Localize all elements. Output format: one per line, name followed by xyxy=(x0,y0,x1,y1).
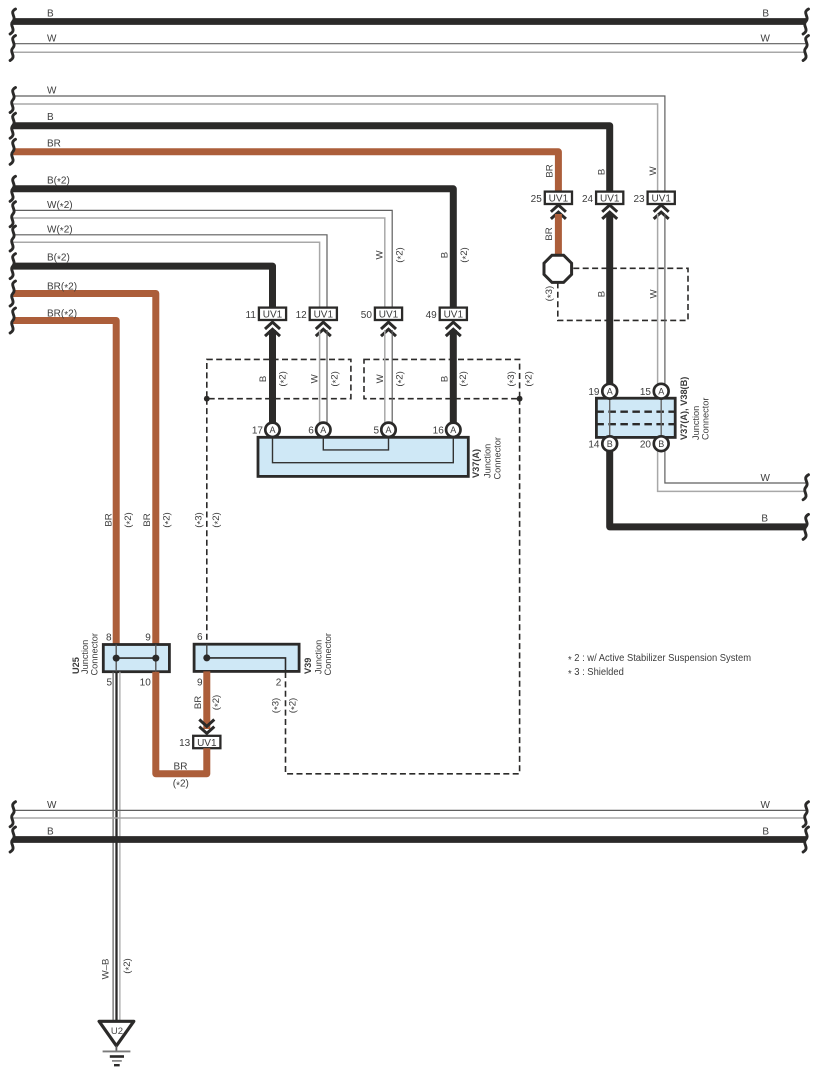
connector 49 UV1 xyxy=(440,308,467,320)
svg-text:11: 11 xyxy=(246,310,257,321)
svg-text:B(*2): B(*2) xyxy=(47,253,70,266)
svg-text:UV1: UV1 xyxy=(444,310,464,321)
connector 25 UV1 xyxy=(545,192,572,204)
ground stem xyxy=(115,1046,117,1052)
svg-text:B: B xyxy=(607,439,613,449)
svg-text:5: 5 xyxy=(107,677,113,688)
svg-text:(*2): (*2) xyxy=(162,512,175,527)
wire B (top battery line) xyxy=(13,18,806,25)
svg-text:(*2): (*2) xyxy=(288,698,301,713)
svg-text:24: 24 xyxy=(582,194,594,205)
svg-text:(*3): (*3) xyxy=(194,512,207,527)
svg-text:16: 16 xyxy=(433,426,445,437)
V37(A),V38(B) internal dashed bus lower xyxy=(596,423,675,425)
svg-text:* 3 : Shielded: * 3 : Shielded xyxy=(568,667,624,680)
ground bar 2 xyxy=(110,1055,124,1058)
svg-text:B: B xyxy=(47,112,54,123)
wire BR to 25 UV1 xyxy=(13,152,558,192)
pin 20 (B) of V37(A),V38(B) xyxy=(654,436,669,451)
wire through U25 pin 9-10 xyxy=(155,645,157,672)
svg-text:W: W xyxy=(761,800,771,811)
svg-text:(*2): (*2) xyxy=(211,512,224,527)
V37(A),V38(B) internal dashed bus upper xyxy=(596,411,675,413)
svg-text:6: 6 xyxy=(197,632,203,643)
svg-text:BR(*2): BR(*2) xyxy=(47,308,77,321)
wire through V37(A),V38(B) at pin 15-20 xyxy=(660,398,662,437)
svg-text:(*2): (*2) xyxy=(523,371,536,386)
svg-text:V37(A): V37(A) xyxy=(471,449,481,478)
svg-text:B: B xyxy=(597,291,608,297)
pin 17 (A) of V37(A) xyxy=(265,423,279,437)
svg-text:14: 14 xyxy=(588,440,600,451)
connector 50 UV1 xyxy=(375,308,402,320)
connector 23 UV1 xyxy=(648,192,675,204)
wire B from 24 UV1 to pin 19 xyxy=(606,214,613,384)
wire B from 11 UV1 to pin 17 xyxy=(269,330,276,424)
svg-text:6: 6 xyxy=(308,426,314,437)
svg-text:B: B xyxy=(762,827,769,838)
V39 internal bus xyxy=(207,658,286,672)
chevron under 23 UV1 xyxy=(654,205,669,212)
svg-text:9: 9 xyxy=(197,677,203,688)
U25 junction dot pin 8 xyxy=(113,655,120,662)
V37(A) internal bus pins 17-16 xyxy=(273,437,454,462)
svg-text:Junction: Junction xyxy=(313,640,323,674)
wire W from 50 UV1 to pin 5 xyxy=(391,330,393,429)
svg-text:Junction: Junction xyxy=(482,444,492,478)
svg-text:A: A xyxy=(320,425,326,435)
wire through U25 pin 8-5 xyxy=(115,645,117,672)
U25 junction dot pin 9 xyxy=(152,655,159,662)
svg-text:(*2): (*2) xyxy=(211,695,224,710)
svg-text:BR: BR xyxy=(104,513,115,526)
svg-text:UV1: UV1 xyxy=(600,194,620,205)
svg-text:(*3): (*3) xyxy=(271,698,284,713)
chevron under 11 UV1 xyxy=(265,322,280,329)
pin 19 (A) of V37(A),V38(B) xyxy=(602,384,617,399)
wire W to 23 UV1 xyxy=(13,96,665,192)
V37(A) internal bus pins 6-5 xyxy=(323,437,388,450)
svg-text:Connector: Connector xyxy=(492,437,502,479)
shield dashed wire from left dot to V39 pin 6 xyxy=(206,399,208,645)
svg-text:50: 50 xyxy=(361,310,373,321)
svg-text:UV1: UV1 xyxy=(263,310,283,321)
svg-text:25: 25 xyxy=(531,194,543,205)
svg-text:B(*2): B(*2) xyxy=(47,175,70,188)
junction connector V37(A),V38(B) body xyxy=(596,398,675,437)
connector 12 UV1 xyxy=(310,308,337,320)
shield junction dot (right) xyxy=(517,396,523,402)
ground U2 triangle xyxy=(99,1021,134,1046)
wire B (bottom) xyxy=(13,836,806,843)
wire W from 12 UV1 to pin 6 xyxy=(326,330,328,429)
svg-text:Connector: Connector xyxy=(323,633,333,675)
svg-text:Connector: Connector xyxy=(701,398,711,440)
svg-text:49: 49 xyxy=(426,310,438,321)
svg-text:BR: BR xyxy=(193,696,204,709)
connector 13 UV1 xyxy=(193,736,220,748)
svg-text:B: B xyxy=(762,9,769,20)
svg-text:BR: BR xyxy=(545,164,556,177)
svg-text:A: A xyxy=(658,387,664,397)
svg-text:(*2): (*2) xyxy=(122,958,135,973)
svg-text:W: W xyxy=(47,800,57,811)
svg-text:A: A xyxy=(607,387,613,397)
svg-text:(*2): (*2) xyxy=(459,247,472,262)
svg-text:23: 23 xyxy=(633,194,645,205)
junction connector V39 body xyxy=(194,644,299,671)
chevron under 12 UV1 xyxy=(316,322,331,329)
svg-text:UV1: UV1 xyxy=(651,194,671,205)
svg-text:B: B xyxy=(47,9,54,20)
svg-text:W(*2): W(*2) xyxy=(47,200,73,213)
junction connector U25 body xyxy=(103,645,169,672)
svg-text:(*2): (*2) xyxy=(123,512,136,527)
svg-text:B: B xyxy=(658,439,664,449)
svg-text:B: B xyxy=(761,513,768,524)
wire W-B from U25 pin 5 to ground U2 xyxy=(112,672,114,1021)
svg-text:B: B xyxy=(440,376,451,382)
svg-text:(*3): (*3) xyxy=(506,371,519,386)
svg-text:A: A xyxy=(269,425,275,435)
V39 junction dot xyxy=(203,654,210,661)
pin 16 (A) of V37(A) xyxy=(446,423,460,437)
ground bar 1 xyxy=(103,1050,131,1052)
wire W (bottom) xyxy=(13,809,806,811)
svg-text:BR: BR xyxy=(47,138,61,149)
chevron under 25 UV1 xyxy=(551,205,566,212)
svg-text:Connector: Connector xyxy=(89,633,99,675)
svg-text:(*2): (*2) xyxy=(329,371,342,386)
wire W(*2) to 50 UV1 xyxy=(13,210,392,308)
svg-text:W: W xyxy=(648,166,659,176)
junction connector V37(A) body xyxy=(258,437,468,476)
svg-text:15: 15 xyxy=(640,387,652,398)
wire BR from V39 pin 9 to 13 UV1 xyxy=(203,671,210,729)
wire B to 24 UV1 xyxy=(13,126,610,192)
svg-text:8: 8 xyxy=(106,632,112,643)
svg-text:W: W xyxy=(374,250,385,260)
svg-text:(*2): (*2) xyxy=(173,779,189,792)
svg-text:UV1: UV1 xyxy=(314,310,334,321)
svg-text:B: B xyxy=(47,827,54,838)
wire W(*2) to 12 UV1 xyxy=(13,235,327,308)
svg-text:(*2): (*2) xyxy=(394,247,407,262)
svg-text:20: 20 xyxy=(640,440,652,451)
shield dashed wire from right dot to V39 pin 2 xyxy=(286,399,520,774)
svg-text:(*2): (*2) xyxy=(395,371,408,386)
svg-text:(*3): (*3) xyxy=(544,286,557,301)
pin 14 (B) of V37(A),V38(B) xyxy=(602,436,617,451)
svg-text:19: 19 xyxy=(588,387,600,398)
pin 5 (A) of V37(A) xyxy=(381,423,395,437)
chevron above 13 UV1 xyxy=(199,720,214,727)
wire B(*2) to 49 UV1 xyxy=(13,189,453,308)
svg-text:UV1: UV1 xyxy=(379,310,399,321)
V39 internal wire from pin 6 xyxy=(206,644,208,658)
chevron under 50 UV1 xyxy=(381,322,396,329)
svg-text:10: 10 xyxy=(140,677,152,688)
svg-text:B: B xyxy=(258,376,269,382)
svg-text:B: B xyxy=(440,252,451,258)
svg-text:B: B xyxy=(596,169,607,175)
wire B(*2) to 11 UV1 xyxy=(13,266,273,308)
svg-text:13: 13 xyxy=(179,738,191,749)
svg-text:BR: BR xyxy=(142,513,153,526)
svg-text:W–B: W–B xyxy=(101,959,112,980)
wire B from 49 UV1 to pin 16 xyxy=(450,330,457,424)
shield dashed box (left) xyxy=(207,359,351,398)
svg-text:2: 2 xyxy=(276,677,282,688)
svg-text:A: A xyxy=(450,425,456,435)
wire W (top, outlined white wire) xyxy=(13,43,806,45)
svg-text:(*2): (*2) xyxy=(458,371,471,386)
connector 11 UV1 xyxy=(259,308,286,320)
svg-text:5: 5 xyxy=(373,426,379,437)
svg-text:UV1: UV1 xyxy=(197,738,217,749)
connector 24 UV1 xyxy=(596,192,623,204)
svg-text:W: W xyxy=(761,34,771,45)
svg-text:(*2): (*2) xyxy=(277,371,290,386)
svg-text:W: W xyxy=(761,473,771,484)
wire through V37(A),V38(B) at pin 19-14 xyxy=(609,398,611,437)
svg-text:BR: BR xyxy=(174,761,188,772)
wire BR(*2) to U25 pin 9 xyxy=(13,294,156,647)
svg-text:* 2 : w/ Active Stabilizer Sus: * 2 : w/ Active Stabilizer Suspension Sy… xyxy=(568,653,751,666)
ground bar 3 xyxy=(112,1060,122,1062)
svg-text:12: 12 xyxy=(296,310,308,321)
svg-text:U2: U2 xyxy=(111,1026,123,1037)
wire B from pin 14 to right edge xyxy=(610,451,806,527)
pin 15 (A) of V37(A),V38(B) xyxy=(654,384,669,399)
svg-text:BR: BR xyxy=(544,227,555,240)
shield dashed outline (right) xyxy=(558,268,688,320)
chevron under 24 UV1 xyxy=(602,205,617,212)
shield junction dot (left) xyxy=(204,396,210,402)
wire BR from 13 UV1 to U25 pin 10 xyxy=(156,672,207,774)
svg-text:V39: V39 xyxy=(303,658,313,674)
wire BR(*2) to U25 pin 8 xyxy=(13,321,116,647)
pin 6 (A) of V37(A) xyxy=(316,423,330,437)
svg-text:UV1: UV1 xyxy=(549,194,569,205)
svg-text:BR(*2): BR(*2) xyxy=(47,281,77,294)
chevron under 49 UV1 xyxy=(446,322,461,329)
shield octagon xyxy=(544,255,572,282)
svg-text:17: 17 xyxy=(252,426,264,437)
svg-text:9: 9 xyxy=(145,632,151,643)
U25 internal bus xyxy=(116,657,156,659)
svg-text:W: W xyxy=(47,34,57,45)
svg-text:A: A xyxy=(385,425,391,435)
svg-text:W(*2): W(*2) xyxy=(47,224,73,237)
svg-text:V37(A), V38(B): V37(A), V38(B) xyxy=(679,377,689,440)
wire BR from 25 UV1 to octagon xyxy=(555,214,562,256)
svg-text:Junction: Junction xyxy=(691,406,701,440)
svg-text:W: W xyxy=(47,86,57,97)
wire W from 23 UV1 to pin 15 and right edge xyxy=(665,214,806,483)
shield dashed box (right) xyxy=(364,359,520,398)
ground bar 4 xyxy=(114,1064,120,1066)
